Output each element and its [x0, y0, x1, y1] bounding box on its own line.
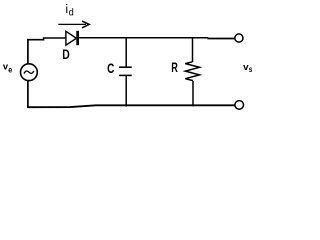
wire bottom horizontal — [27, 105, 235, 107]
svg-text:e: e — [8, 65, 12, 75]
resistor R zigzag — [185, 62, 199, 81]
svg-text:D: D — [62, 46, 69, 62]
wire resistor bottom lead — [192, 81, 194, 106]
wire capacitor top lead — [125, 38, 127, 68]
label id — [66, 4, 74, 19]
label vs — [243, 62, 253, 74]
wire top-right to terminal — [208, 38, 236, 40]
voltage source ve — [21, 64, 38, 81]
wire top horizontal (diode to junctions) — [79, 37, 209, 39]
label ve — [3, 62, 12, 75]
svg-text:d: d — [69, 8, 74, 19]
wire top-left horizontal — [27, 38, 66, 40]
terminal bottom-right — [235, 101, 244, 110]
svg-text:C: C — [107, 61, 114, 76]
svg-text:R: R — [171, 60, 178, 75]
diode D — [66, 31, 79, 45]
wire left vertical — [27, 39, 29, 108]
capacitor C plates — [119, 67, 132, 75]
wire resistor top lead — [192, 38, 194, 63]
wire capacitor bottom lead — [125, 76, 127, 107]
terminal top-right — [235, 34, 243, 42]
current arrow id — [58, 21, 89, 28]
svg-text:s: s — [249, 65, 253, 74]
